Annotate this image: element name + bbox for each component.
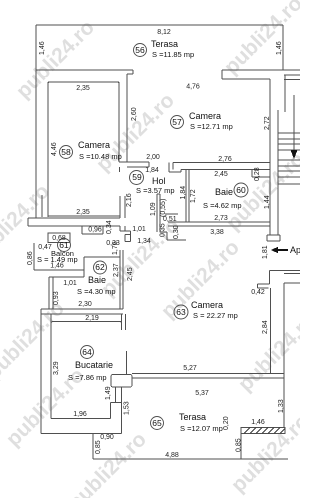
svg-text:Camera: Camera [78,140,110,150]
right wall beside staircase [267,75,285,241]
svg-text:Terasa: Terasa [179,412,206,422]
baie 60 top right notch [252,170,270,178]
svg-text:1,76: 1,76 [112,241,119,255]
bucatarie right wall with door gap [122,314,127,375]
svg-text:S =11.85 mp: S =11.85 mp [152,50,194,59]
svg-text:60: 60 [236,185,246,195]
svg-text:S =10.48 mp: S =10.48 mp [79,152,122,161]
svg-text:S =4.30 mp: S =4.30 mp [77,287,116,296]
svg-text:0,28: 0,28 [254,167,261,181]
terasa east edge below bar [241,413,284,459]
svg-text:1,81: 1,81 [262,245,269,259]
svg-text:S =4.62 mp: S =4.62 mp [203,201,242,210]
baie 62 top and left walls [49,277,84,309]
svg-text:2,60: 2,60 [131,107,138,121]
svg-text:Camera: Camera [191,300,223,310]
svg-text:Baie: Baie [215,187,233,197]
svg-text:1,01: 1,01 [63,280,77,287]
svg-text:2,30: 2,30 [78,301,92,308]
svg-text:2,76: 2,76 [218,156,232,163]
bucatarie bottom wall [41,433,122,435]
svg-text:Hol: Hol [152,176,166,186]
room 62 labels [77,261,116,296]
svg-text:Terasa: Terasa [151,39,178,49]
svg-text:59: 59 [132,172,142,182]
svg-text:63: 63 [176,307,186,317]
svg-text:0,51: 0,51 [163,216,177,223]
camera 58 bottom wall [28,218,120,226]
svg-text:0,96: 0,96 [88,227,102,234]
svg-text:(0,55): (0,55) [160,199,167,217]
svg-text:0,68: 0,68 [52,235,66,242]
apartment entrance arrow [277,249,288,251]
wall hol/baie 60 [186,170,189,223]
svg-text:S =12.07 mp: S =12.07 mp [180,424,223,433]
svg-text:0,86: 0,86 [27,251,34,265]
hol left wall going down [120,226,131,242]
small jamb near door to camera 63 [160,232,186,240]
svg-text:1,96: 1,96 [73,411,87,418]
svg-text:1,72: 1,72 [190,189,197,203]
balcon ledge piece [82,226,103,234]
svg-text:S =12.71 mp: S =12.71 mp [190,122,233,131]
room 64 labels [68,346,113,383]
terrace 56 outline [36,25,283,70]
outer right wall [284,274,300,414]
svg-text:3,38: 3,38 [210,229,224,236]
svg-text:1,46: 1,46 [251,419,265,426]
svg-text:1,53: 1,53 [124,401,131,415]
svg-text:Ap: Ap [290,245,300,255]
svg-text:S = 22.27 mp: S = 22.27 mp [193,311,238,320]
camera 63 bottom wall [132,374,284,379]
svg-text:0,42: 0,42 [251,289,265,296]
wall between camera 58 and camera 57 [119,82,149,218]
svg-text:64: 64 [82,347,92,357]
svg-text:57: 57 [172,117,182,127]
svg-text:1,84: 1,84 [180,186,187,200]
svg-text:8,12: 8,12 [157,29,171,36]
svg-text:65: 65 [152,418,162,428]
bucatarie inner outline [51,322,122,419]
terasa 65 bottom line [93,458,288,460]
svg-text:Camera: Camera [189,111,221,121]
room 65 labels [151,412,223,433]
svg-text:0,85: 0,85 [95,440,102,454]
svg-text:2,45: 2,45 [214,171,228,178]
baie 62 bottom wall [41,309,123,314]
camera 58 inner outline [48,82,120,216]
top wall left segment [36,70,133,82]
svg-text:1,01: 1,01 [132,226,146,233]
svg-text:2,45: 2,45 [127,267,134,281]
svg-text:4,76: 4,76 [186,84,200,91]
svg-text:0,30: 0,30 [173,225,180,239]
svg-text:4,46: 4,46 [51,142,58,156]
svg-text:1,46: 1,46 [276,41,283,55]
svg-text:2,37: 2,37 [113,263,120,277]
baie 62 / camera 63 wall [120,250,123,309]
svg-text:0,34: 0,34 [106,220,113,234]
svg-text:0,93: 0,93 [53,291,60,305]
svg-text:2,35: 2,35 [76,209,90,216]
door leaf box 0,68 [48,233,70,243]
room 59 labels [130,171,175,196]
ledge 0,96 [82,233,103,235]
svg-text:5,37: 5,37 [195,390,209,397]
svg-text:1,46: 1,46 [50,263,64,270]
svg-text:2,73: 2,73 [214,215,228,222]
svg-text:1,34: 1,34 [137,238,151,245]
svg-text:1,49: 1,49 [105,386,112,400]
svg-text:0,85: 0,85 [236,438,243,452]
svg-text:0,35: 0,35 [160,223,167,237]
left exterior wall [36,70,48,218]
svg-text:3,29: 3,29 [53,361,60,375]
svg-text:S =7.86 mp: S =7.86 mp [68,373,107,382]
staircase treads [278,133,300,184]
svg-text:1,09: 1,09 [150,202,157,216]
svg-text:S =3.57 mp: S =3.57 mp [136,186,175,195]
svg-text:0,47: 0,47 [38,244,52,251]
hatched wall piece 1,46 [241,428,285,434]
top wall right segment [222,70,300,80]
staircase center line and down arrow [293,95,295,150]
room 60 labels [203,183,248,210]
svg-text:56: 56 [135,45,145,55]
room 58 labels [60,140,122,161]
bucatarie left wall [41,309,51,434]
svg-text:2,72: 2,72 [264,116,271,130]
balcon 61 parapet [34,243,120,277]
balcon 61 labels [37,239,78,265]
svg-text:5,27: 5,27 [183,365,197,372]
camera 63 right wall [270,288,272,373]
svg-text:2,00: 2,00 [146,154,160,161]
svg-text:Bucatarie: Bucatarie [75,360,113,370]
svg-text:0,20: 0,20 [223,416,230,430]
terasa 65 west step [92,434,94,460]
svg-text:2,84: 2,84 [262,320,269,334]
svg-text:4,88: 4,88 [165,452,179,459]
svg-text:2,16: 2,16 [126,193,133,207]
svg-text:58: 58 [61,147,71,157]
hol inner stub wall [157,194,178,232]
room 57 labels [171,111,233,131]
hol and baie 60 bottom wall [168,222,270,226]
svg-text:1,84: 1,84 [145,167,159,174]
svg-text:1,33: 1,33 [278,399,285,413]
svg-text:62: 62 [95,262,105,272]
svg-text:Baie: Baie [88,275,106,285]
bucatarie chimney fixture [111,375,132,434]
svg-text:2,35: 2,35 [76,85,90,92]
svg-text:1,46: 1,46 [39,41,46,55]
svg-text:2,19: 2,19 [85,315,99,322]
camera 57 bottom wall with jamb [169,163,270,173]
svg-text:0,90: 0,90 [100,434,114,441]
svg-text:1,44: 1,44 [264,195,271,209]
room 63 labels [174,300,238,320]
camera 63 right wall jog [258,270,301,288]
room 56 labels [134,39,195,59]
